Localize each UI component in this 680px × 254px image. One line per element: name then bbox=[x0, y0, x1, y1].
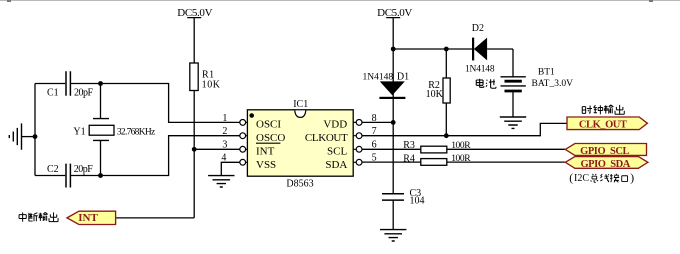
svg-text:1N4148: 1N4148 bbox=[363, 72, 394, 82]
svg-text:GPIO_SDA: GPIO_SDA bbox=[580, 159, 630, 170]
svg-text:C2: C2 bbox=[47, 164, 59, 175]
svg-text:D1: D1 bbox=[397, 71, 409, 82]
svg-text:SDA: SDA bbox=[325, 159, 347, 171]
svg-text:1: 1 bbox=[222, 113, 227, 124]
svg-text:100R: 100R bbox=[451, 141, 471, 151]
svg-text:10K: 10K bbox=[426, 89, 444, 100]
svg-text:104: 104 bbox=[410, 195, 425, 206]
svg-text:6: 6 bbox=[372, 140, 377, 151]
svg-text:OSCI: OSCI bbox=[256, 119, 281, 131]
svg-text:INT: INT bbox=[78, 212, 98, 224]
svg-text:VDD: VDD bbox=[323, 119, 347, 131]
svg-text:R3: R3 bbox=[403, 140, 415, 151]
svg-text:D8563: D8563 bbox=[286, 178, 313, 189]
svg-text:7: 7 bbox=[372, 126, 377, 137]
svg-text:20pF: 20pF bbox=[74, 164, 94, 175]
svg-text:10K: 10K bbox=[202, 79, 221, 90]
svg-text:IC1: IC1 bbox=[293, 99, 308, 110]
svg-text:VSS: VSS bbox=[256, 159, 276, 171]
svg-text:3: 3 bbox=[222, 140, 227, 151]
svg-text:CLKOUT: CLKOUT bbox=[305, 132, 348, 144]
svg-text:20pF: 20pF bbox=[74, 88, 94, 99]
svg-text:4: 4 bbox=[221, 153, 226, 164]
svg-text:C1: C1 bbox=[47, 88, 59, 99]
svg-text:5: 5 bbox=[372, 153, 377, 164]
svg-text:DC5.0V: DC5.0V bbox=[177, 7, 212, 19]
svg-text:CLK_OUT: CLK_OUT bbox=[579, 120, 627, 131]
svg-text:32.768KHz: 32.768KHz bbox=[117, 128, 155, 138]
svg-text:100R: 100R bbox=[451, 154, 471, 164]
svg-text:(: ( bbox=[569, 173, 573, 185]
svg-text:8: 8 bbox=[372, 113, 377, 124]
svg-text:D2: D2 bbox=[472, 23, 484, 34]
svg-text:): ) bbox=[630, 173, 634, 185]
svg-text:Y1: Y1 bbox=[73, 127, 85, 138]
svg-text:GPIO_SCL: GPIO_SCL bbox=[580, 146, 629, 157]
svg-text:2: 2 bbox=[222, 126, 227, 137]
svg-text:SCL: SCL bbox=[327, 146, 347, 158]
svg-text:1N4148: 1N4148 bbox=[465, 64, 495, 74]
svg-text:I2C: I2C bbox=[574, 173, 589, 184]
svg-text:INT: INT bbox=[256, 146, 275, 158]
svg-text:R4: R4 bbox=[403, 153, 415, 164]
svg-text:DC5.0V: DC5.0V bbox=[377, 7, 412, 19]
svg-text:BAT_3.0V: BAT_3.0V bbox=[532, 79, 574, 89]
svg-text:BT1: BT1 bbox=[538, 68, 555, 78]
svg-text:OSCO: OSCO bbox=[256, 132, 285, 144]
